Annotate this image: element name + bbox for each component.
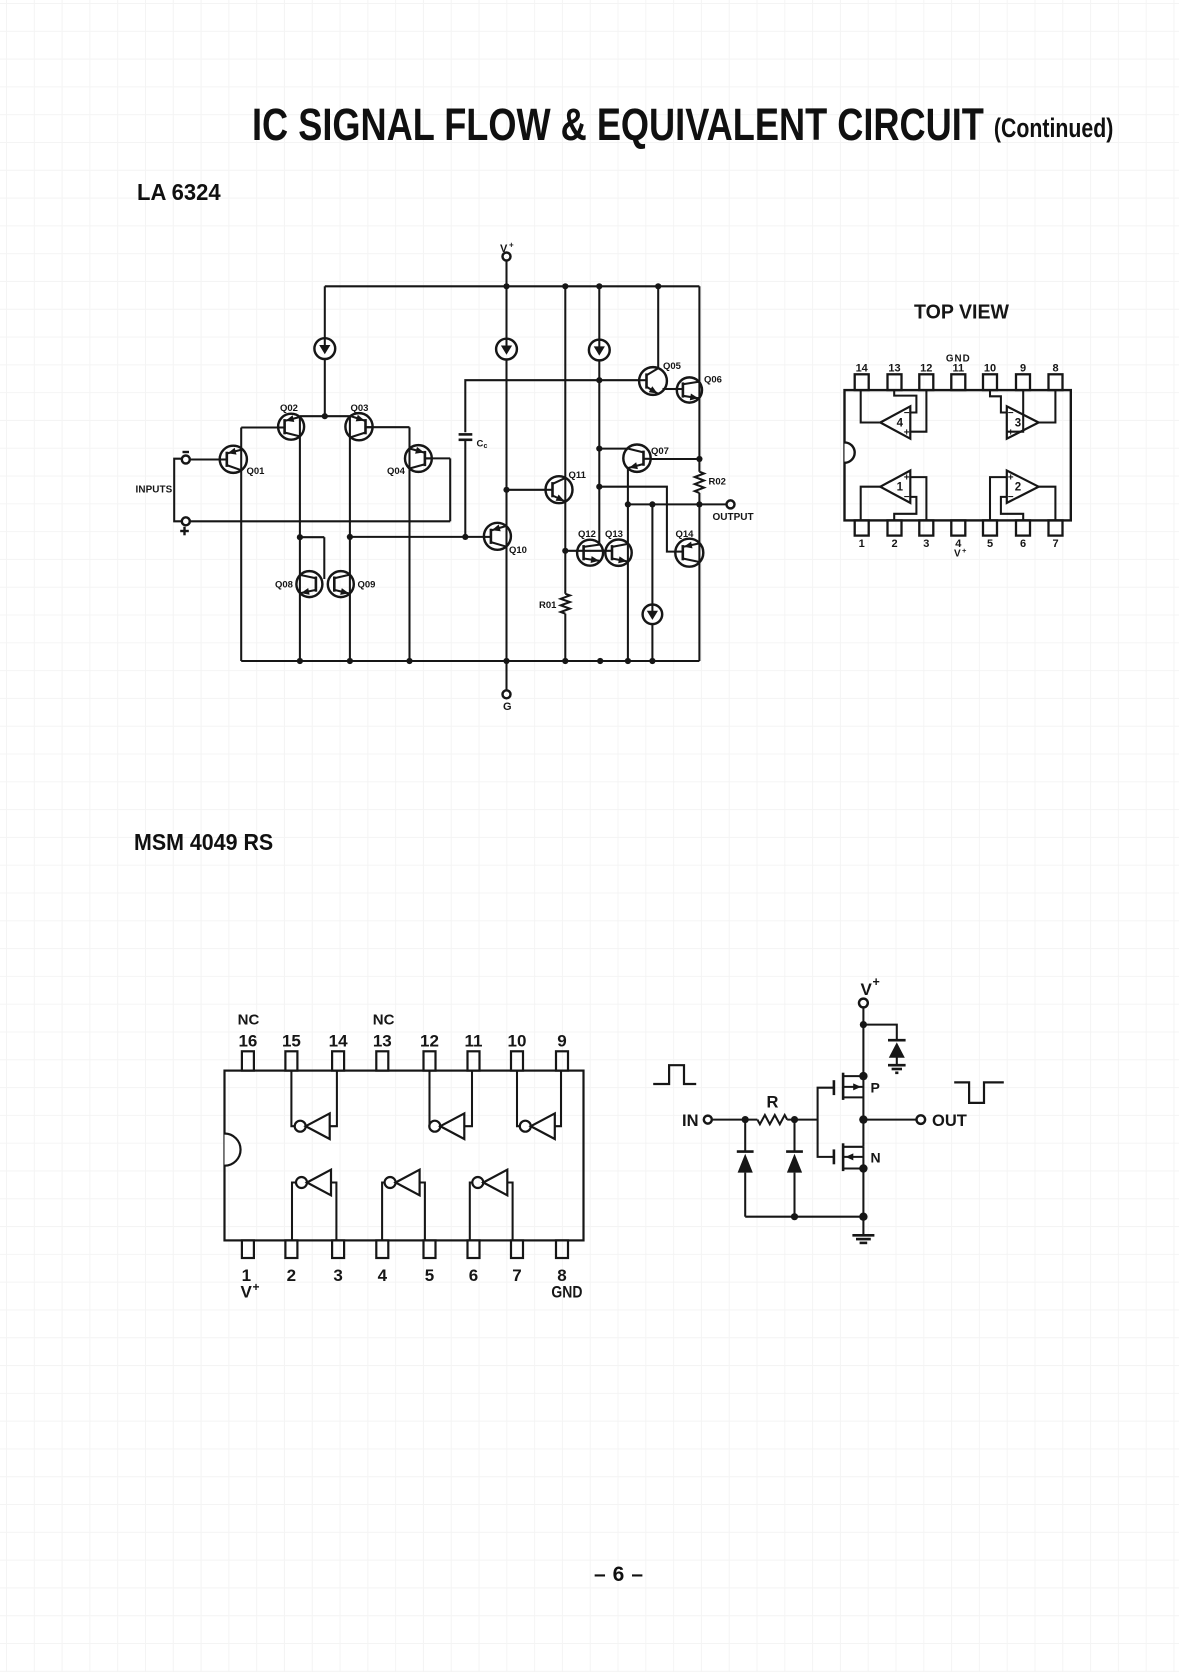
label Q12 (578, 529, 596, 540)
minus sign (183, 451, 190, 453)
label Q09 (358, 580, 376, 591)
svg-text:R01: R01 (539, 600, 557, 611)
inverter 2-3 (292, 1170, 336, 1241)
svg-text:−: − (904, 408, 910, 419)
svg-text:3: 3 (923, 538, 929, 550)
label R (767, 1094, 779, 1112)
label V+ pin4 (954, 546, 967, 560)
label Q11 (569, 470, 587, 481)
wire pin9 to amp3 +in (1007, 390, 1023, 432)
svg-text:+: + (1008, 472, 1014, 483)
wire Q02-Q03 emitters (300, 415, 350, 417)
diode D1 (737, 1152, 754, 1173)
terminal IN (704, 1116, 712, 1124)
label MSM V+ (241, 1280, 260, 1302)
svg-text:V: V (954, 549, 961, 560)
output pulse waveform (954, 1082, 1004, 1103)
svg-text:Q06: Q06 (704, 375, 722, 386)
label Q10 (509, 545, 527, 556)
wire N source down (862, 1147, 864, 1217)
svg-text:7: 7 (1052, 538, 1058, 550)
wire Q07 emitter column (627, 468, 629, 661)
junction rail Q04 (406, 658, 412, 664)
wire D3 to ground (896, 1058, 898, 1065)
wire amp3 out to pin8 (1039, 390, 1056, 422)
label OUT (932, 1112, 967, 1130)
svg-text:13: 13 (373, 1032, 392, 1051)
junction diff pair tail (322, 413, 328, 419)
svg-text:9: 9 (557, 1032, 566, 1051)
svg-text:14: 14 (856, 363, 869, 375)
label Q01 (247, 466, 266, 477)
terminal OUTPUT (727, 500, 735, 508)
svg-text:2: 2 (891, 538, 897, 550)
wire amp4 out to pin14 (861, 390, 881, 422)
wire Q11 base (507, 489, 546, 491)
wire G drop (505, 661, 507, 690)
wire plus input (190, 520, 450, 522)
svg-text:12: 12 (920, 363, 932, 375)
svg-text:12: 12 (420, 1032, 439, 1051)
wire D2 drop (793, 1120, 795, 1152)
wire Q12Q13 base column (598, 487, 600, 545)
svg-text:Q05: Q05 (663, 361, 682, 372)
op-amp 1 (880, 471, 910, 503)
wire Q07 collector (650, 458, 699, 460)
junction rail G (503, 658, 509, 664)
svg-text:9: 9 (1020, 363, 1026, 375)
wire Q08 column to rail (299, 537, 301, 661)
wire D1 to rail (744, 1173, 746, 1217)
wire IN (712, 1119, 758, 1121)
wire Q10 collector column (505, 490, 507, 661)
IC pins bottom row (1-7) (855, 520, 1063, 535)
wire Q01 emitter to rail (240, 470, 242, 661)
resistor R01 (561, 594, 570, 614)
wire Q06 emitter column (698, 286, 700, 471)
wire I2 down (505, 360, 507, 490)
svg-text:3: 3 (1015, 418, 1021, 430)
P-MOSFET arrow line (843, 1083, 863, 1090)
svg-text:Q02: Q02 (280, 403, 298, 414)
wire CS3 down (598, 360, 600, 380)
wire Q10 base (350, 536, 484, 538)
IC notch (845, 442, 855, 462)
wire Q01 collector up (241, 428, 278, 471)
labels top pin numbers (856, 363, 1059, 375)
N-MOSFET drain line (843, 1146, 863, 1148)
svg-text:Q14: Q14 (676, 529, 695, 540)
op-amp 2 (1007, 471, 1039, 503)
svg-text:3: 3 (333, 1266, 342, 1285)
svg-text:G: G (503, 701, 512, 713)
wire R to gates (787, 1119, 817, 1121)
svg-text:Q10: Q10 (509, 545, 527, 556)
wire D1 drop (744, 1120, 746, 1152)
wire CS1 drop (324, 286, 326, 338)
junction Cc-Q10 (462, 534, 468, 540)
transistor Q13 (605, 540, 631, 566)
svg-text:OUT: OUT (932, 1112, 967, 1130)
junction rail Q08 (297, 658, 303, 664)
inverter 10-9 (517, 1071, 561, 1139)
terminal OUT (917, 1115, 926, 1124)
junction R02 top (696, 456, 702, 462)
label V+ mosfet (861, 975, 880, 999)
wire Q09 column to rail (349, 537, 351, 661)
plus sign (180, 527, 189, 536)
junction Q02-Q08 (297, 534, 303, 540)
P-MOSFET channel bar (842, 1073, 845, 1100)
wire Q02 collector column (299, 416, 301, 537)
junction output node (859, 1115, 867, 1123)
label Q08 (275, 580, 293, 591)
label N (871, 1150, 881, 1166)
junction rail Q12 (597, 658, 603, 664)
P-MOSFET drain line (843, 1075, 863, 1077)
resistor R02 (695, 472, 704, 493)
transistor Q09 (328, 571, 354, 597)
label Q14 (676, 529, 695, 540)
junction Q11 base node (503, 487, 509, 493)
svg-text:NC: NC (238, 1012, 260, 1029)
terminal V+ mosfet (859, 999, 868, 1008)
label NC pin16 (238, 1012, 260, 1029)
svg-text:8: 8 (1052, 363, 1058, 375)
svg-text:+: + (1008, 428, 1014, 439)
svg-text:+: + (873, 975, 880, 989)
label NC pin13 (373, 1012, 395, 1029)
svg-text:R: R (767, 1094, 779, 1112)
IC pins top row (14-8) (855, 374, 1063, 390)
current source I1 (314, 338, 335, 359)
svg-text:1: 1 (897, 482, 904, 494)
junction output Q13 (625, 501, 631, 507)
wire Q03 collector right (366, 427, 410, 661)
transistor Q07 (623, 445, 650, 472)
junction Q07 base (596, 446, 602, 452)
wire bottom rail (241, 660, 699, 662)
wire D2 to rail (793, 1173, 795, 1217)
junction Q14 base node (596, 484, 602, 490)
transistor Q05 (639, 367, 667, 395)
junction top rail Q11 (562, 283, 568, 289)
svg-text:P: P (871, 1080, 880, 1096)
wire pin13 to amp4 -in (894, 390, 916, 412)
wire amp1 out to pin1 (861, 487, 881, 521)
svg-text:2: 2 (287, 1266, 296, 1285)
svg-text:+: + (509, 241, 514, 250)
terminal plus input (182, 517, 190, 525)
wire Q08 base link (300, 537, 324, 579)
label Q03 (351, 403, 369, 414)
terminal V+ (503, 253, 511, 287)
current source I3 (589, 340, 610, 361)
gate bus (818, 1088, 834, 1157)
junction rail Q13 (625, 658, 631, 664)
svg-text:Q09: Q09 (358, 580, 376, 591)
heading LA 6324 (137, 179, 221, 206)
junction top rail / V+ (503, 283, 509, 289)
junction rail D2 (791, 1213, 798, 1220)
label GND pin11 (946, 354, 971, 365)
wire output (628, 503, 727, 505)
op-amp 3 (1007, 406, 1039, 438)
junction P drain (859, 1072, 867, 1080)
svg-text:V: V (241, 1283, 253, 1302)
wire R01 to rail (564, 614, 566, 661)
svg-text:R02: R02 (709, 477, 726, 488)
inverter 15-14 (291, 1071, 337, 1139)
svg-text:6: 6 (1020, 538, 1026, 550)
svg-text:OUTPUT: OUTPUT (713, 512, 754, 523)
labels bottom pin numbers (859, 538, 1059, 550)
svg-text:+: + (962, 546, 967, 555)
wire pin3 to amp1 +in (910, 477, 926, 520)
svg-text:Q07: Q07 (651, 446, 669, 457)
IC body LA6324 (845, 390, 1071, 520)
wire Q07 base node column (598, 380, 600, 448)
input pulse waveform (653, 1065, 696, 1084)
label R01 (539, 600, 557, 611)
current source I4 (643, 605, 663, 625)
labels MSM top pin numbers (238, 1032, 566, 1051)
heading MSM 4049 RS (134, 829, 273, 856)
label Q04 (387, 466, 406, 477)
label Q06 (704, 375, 722, 386)
wire Q05-Q06 (663, 388, 678, 390)
junction N source (859, 1164, 867, 1172)
P-MOSFET gate bar (833, 1080, 836, 1095)
label INPUTS (136, 485, 173, 496)
svg-text:11: 11 (465, 1032, 483, 1051)
wire P to output (862, 1076, 864, 1147)
label TOP VIEW (914, 301, 1010, 324)
N-MOSFET source line (843, 1167, 863, 1169)
label Cc (477, 439, 488, 451)
svg-text:GND: GND (551, 1283, 582, 1302)
wire Q14 node column (598, 449, 600, 487)
svg-text:TOP VIEW: TOP VIEW (914, 301, 1010, 324)
label G (503, 701, 512, 713)
diode D2 (786, 1152, 803, 1173)
junction Cc wire (596, 377, 602, 383)
page title (252, 99, 1113, 151)
terminal G (503, 690, 511, 698)
MSM pins bottom row (1-8) (242, 1240, 568, 1258)
N-MOSFET channel bar (842, 1143, 845, 1171)
svg-text:N: N (871, 1150, 881, 1166)
wire to ground (862, 1217, 864, 1235)
svg-text:Q12: Q12 (578, 529, 596, 540)
svg-text:−: − (1008, 492, 1014, 503)
label OUTPUT (713, 512, 754, 523)
junction V+ branch (860, 1021, 867, 1028)
wire Q12 base (565, 550, 612, 552)
svg-text:+: + (904, 472, 910, 483)
wire pin6 to amp2 -in (1001, 497, 1023, 521)
wire output (863, 1119, 916, 1121)
inverter 6-7 (470, 1170, 513, 1241)
svg-text:10: 10 (508, 1032, 527, 1051)
svg-text:5: 5 (425, 1266, 434, 1285)
svg-text:+: + (253, 1280, 260, 1294)
MSM IC body (225, 1071, 584, 1241)
label P (871, 1080, 880, 1096)
op-amp 4 (880, 406, 910, 438)
svg-text:4: 4 (897, 418, 904, 430)
transistor Q02 (278, 414, 304, 440)
page number (594, 1563, 650, 1587)
MSM notch (225, 1134, 241, 1166)
junction rail R01 (562, 658, 568, 664)
labels MSM bottom pin numbers (242, 1266, 567, 1285)
label V+ (500, 241, 514, 256)
svg-text:6: 6 (469, 1266, 478, 1285)
label MSM GND (551, 1283, 582, 1302)
wire Q07 base (599, 448, 628, 450)
wire V+ column (505, 286, 507, 338)
wire CS4 column bottom (651, 624, 653, 661)
wire Cc bottom (464, 440, 466, 537)
ground D3 (888, 1065, 906, 1073)
junction top rail CS3 (596, 283, 602, 289)
svg-text:c: c (484, 443, 488, 450)
junction Q03-Q09-Q10base (347, 534, 353, 540)
transistor Q03 (345, 413, 372, 440)
svg-text:2: 2 (1015, 482, 1021, 494)
transistor Q06 (677, 377, 702, 402)
svg-text:1: 1 (859, 538, 865, 550)
svg-text:GND: GND (946, 354, 971, 365)
svg-text:+: + (904, 428, 910, 439)
svg-text:C: C (477, 439, 484, 450)
transistor Q10 (484, 523, 511, 550)
inverter 4-5 (382, 1170, 425, 1241)
N-MOSFET arrow line (843, 1153, 863, 1160)
wire Q05 collector drop (657, 286, 659, 368)
junction D2 top (791, 1116, 798, 1123)
inverter 12-11 (429, 1071, 472, 1139)
wire Q14 base path (599, 487, 675, 552)
wire V+ down (862, 1007, 864, 1076)
ground main (852, 1235, 874, 1243)
wire Q11 collector column (564, 286, 566, 594)
wire CS1 to diff pair (324, 359, 326, 416)
wire R02 down (698, 493, 700, 661)
transistor Q04 (405, 445, 432, 472)
body diode D3 (888, 1040, 906, 1058)
svg-text:5: 5 (987, 538, 993, 550)
svg-text:13: 13 (888, 363, 900, 375)
svg-text:16: 16 (238, 1032, 257, 1051)
wire CS3 drop (598, 286, 600, 339)
svg-text:Q11: Q11 (569, 470, 587, 481)
svg-text:Q08: Q08 (275, 580, 293, 591)
transistor Q12 (577, 540, 603, 566)
svg-text:Q01: Q01 (247, 466, 266, 477)
P-MOSFET source line (843, 1096, 863, 1098)
wire Cc top run (465, 380, 639, 432)
junction rail Q09 (347, 658, 353, 664)
svg-text:V: V (500, 243, 508, 255)
wire to body diode (863, 1025, 896, 1041)
junction rail CS4 (649, 658, 655, 664)
junction output R02 (696, 501, 702, 507)
label Q05 (663, 361, 682, 372)
svg-text:15: 15 (282, 1032, 301, 1051)
wire minus input (190, 458, 221, 460)
transistor Q11 (546, 476, 573, 503)
capacitor Cc (459, 434, 473, 439)
wire mosfet bottom rail (745, 1216, 863, 1218)
label Q13 (605, 529, 623, 540)
wire pin5 to amp2 +in (990, 477, 1007, 520)
wire Q04 base loop (425, 458, 450, 521)
svg-text:V: V (861, 980, 873, 999)
junction top rail Q05 (655, 283, 661, 289)
transistor Q01 (220, 446, 247, 473)
transistor Q08 (296, 571, 322, 597)
svg-text:−: − (1008, 408, 1014, 419)
transistor Q14 (675, 539, 703, 567)
label IN (682, 1112, 699, 1130)
MSM pins top row (16-9) (242, 1051, 568, 1070)
label Q07 (651, 446, 669, 457)
N-MOSFET gate bar (833, 1149, 836, 1164)
wire pin2 to amp1 -in (894, 497, 916, 521)
junction output CS4 (649, 501, 655, 507)
wire CS4 column top (651, 504, 653, 604)
label Q02 (280, 403, 298, 414)
input bracket (174, 459, 181, 522)
svg-text:10: 10 (984, 363, 996, 375)
svg-text:Q03: Q03 (351, 403, 369, 414)
svg-text:Q13: Q13 (605, 529, 623, 540)
svg-text:Q04: Q04 (387, 466, 406, 477)
svg-text:IN: IN (682, 1112, 699, 1130)
svg-text:7: 7 (512, 1266, 521, 1285)
svg-text:14: 14 (329, 1032, 348, 1051)
svg-text:4: 4 (378, 1266, 388, 1285)
wire pin10 to amp3 -in (990, 390, 1007, 412)
junction D1 (742, 1116, 749, 1123)
wire amp2 out to pin7 (1039, 487, 1056, 521)
wire pin12 to amp4 +in (910, 390, 926, 432)
wire top V+ rail (325, 285, 700, 287)
current source I2 (496, 339, 517, 360)
junction Q12 base node (562, 548, 568, 554)
resistor R (757, 1115, 787, 1124)
terminal minus input (182, 456, 190, 464)
svg-text:NC: NC (373, 1012, 395, 1029)
wire Q03 emitter column (349, 416, 351, 537)
label R02 (709, 477, 726, 488)
svg-text:−: − (904, 492, 910, 503)
svg-text:INPUTS: INPUTS (136, 485, 173, 496)
junction rail N (859, 1213, 867, 1221)
